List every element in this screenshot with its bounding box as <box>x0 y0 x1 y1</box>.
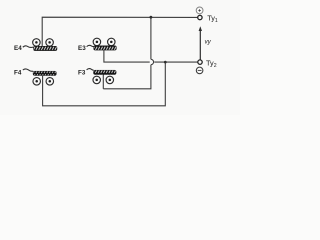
svg-text:E4: E4 <box>14 45 22 52</box>
gauge F4: hatched element bar <box>33 71 56 75</box>
wire: vertical drop x151 from top rail, hop over y62 rail, down to y88.8 then left to F3 <box>103 17 153 89</box>
junction dot on top rail at x150.9 <box>150 16 153 19</box>
wire: E3 lead down then right to Ty2 terminal (y62 rail) <box>104 50 150 62</box>
gauge F3: terminal circle left <box>93 76 101 84</box>
svg-text:F3: F3 <box>78 69 86 76</box>
svg-text:E3: E3 <box>78 45 86 52</box>
junction dot on y62 rail at x165.3 <box>164 61 167 64</box>
terminal Ty1 <box>198 15 202 19</box>
wire: top rail from E4 corner to Ty1 terminal <box>42 17 197 46</box>
gauge F4: terminal circle right <box>46 78 54 86</box>
plus polarity symbol above Ty1 <box>196 7 203 14</box>
gauge F4: leader squiggle <box>23 69 33 71</box>
gauge F3: leader squiggle <box>87 69 94 71</box>
wire: y62 rail right of hop to Ty2 <box>154 61 198 63</box>
gauge F3: terminal circle right <box>106 76 114 84</box>
svg-text:F4: F4 <box>14 69 22 76</box>
gauge F4: terminal circle left <box>33 78 41 86</box>
gauge E4: terminal circle left <box>33 39 41 47</box>
terminal Ty2 <box>198 60 202 64</box>
arrow Vy pointing up <box>199 30 201 60</box>
gauge E4: hatched element bar <box>33 46 57 50</box>
wire: F3 centre lead down to y88.8 rail <box>102 74 104 89</box>
gauge E3: terminal circle left <box>93 38 101 46</box>
gauge F3: hatched element bar <box>94 70 117 74</box>
svg-text:vy: vy <box>205 39 212 46</box>
gauge E3: hatched element bar <box>94 46 117 50</box>
wire: vertical x165.3 from y62 rail down to bottom rail, left to F4 lead <box>43 62 166 106</box>
gauge E4: terminal circle right <box>46 39 54 47</box>
gauge E4: leader squiggle <box>23 46 34 48</box>
gauge E3: terminal circle right <box>108 38 116 46</box>
minus polarity symbol below Ty2 <box>196 67 203 74</box>
gauge E3: leader squiggle <box>87 45 94 46</box>
